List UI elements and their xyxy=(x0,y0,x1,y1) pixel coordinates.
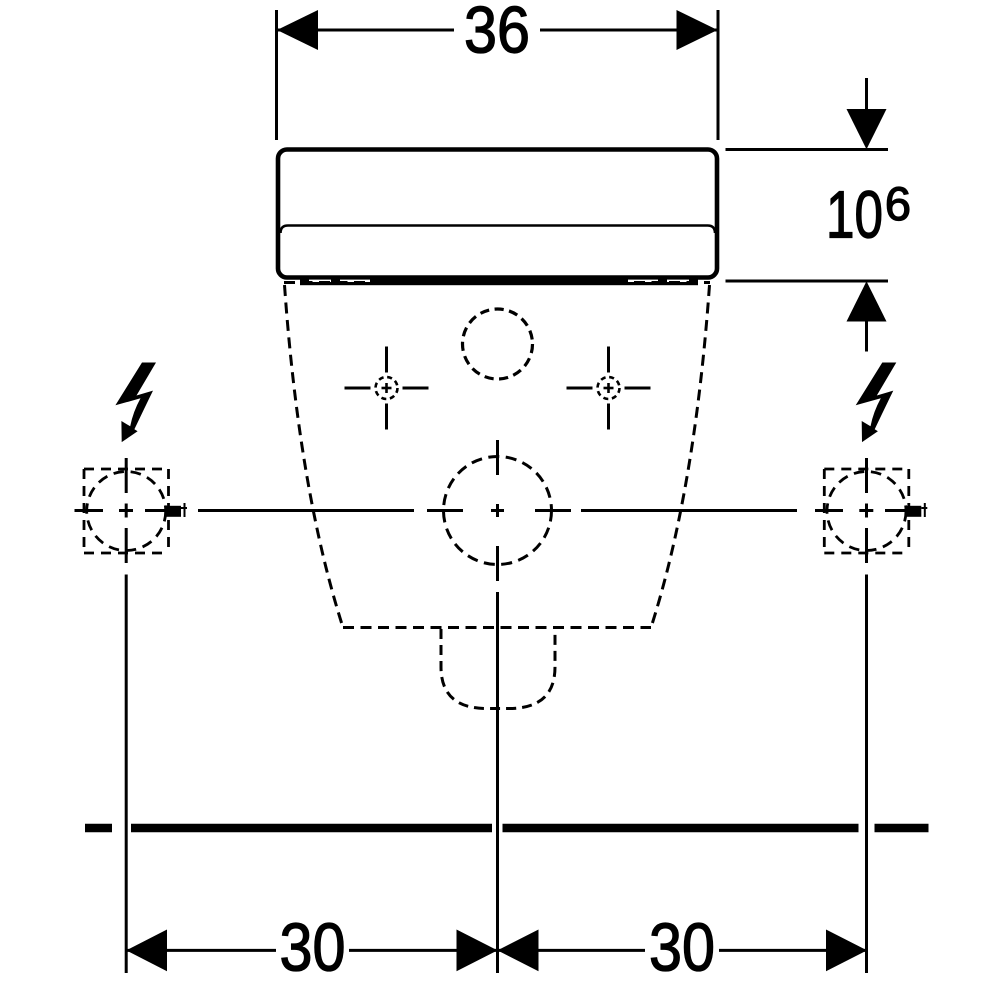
bar white slit 2 xyxy=(340,280,370,282)
svg-text:30: 30 xyxy=(649,911,715,986)
cistern outline (rounded rectangle) xyxy=(278,150,717,278)
svg-text:30: 30 xyxy=(280,911,346,986)
center vertical line xyxy=(496,592,499,973)
right electrical box dashed circle xyxy=(827,472,906,551)
floor line xyxy=(85,824,929,833)
bar white slit 4 xyxy=(667,280,689,282)
WC pan dashed outline: right side xyxy=(651,285,710,628)
left symbol centerline vertical xyxy=(125,458,128,493)
horizontal centerline segments xyxy=(75,509,104,512)
bottom dimension: center bowtie arrowheads xyxy=(457,930,498,972)
right electrical box dashed square xyxy=(824,469,909,553)
bar white slit 1 xyxy=(309,280,331,282)
water supply crosshair horizontal segments xyxy=(427,509,463,512)
water supply dashed circle xyxy=(444,457,552,565)
dimension 36: dimension line right segment xyxy=(540,29,718,32)
svg-text:6: 6 xyxy=(885,177,911,230)
drain outlet dashed U shape xyxy=(441,629,555,709)
right fixing point crosshair xyxy=(567,347,651,430)
bottom dimension: right arrowhead xyxy=(826,930,867,972)
WC pan dashed outline: bottom edge xyxy=(343,626,651,629)
left lightning bolt arrow xyxy=(115,363,156,443)
dimension 10^6: bottom extension line xyxy=(726,280,889,283)
dimension 36: left arrowhead xyxy=(277,10,318,50)
right lightning bolt arrow xyxy=(856,363,897,443)
svg-text:36: 36 xyxy=(464,0,530,67)
svg-text:10: 10 xyxy=(826,178,883,253)
dimension 36: left extension line xyxy=(275,10,278,140)
dimension 10^6: down arrowhead xyxy=(847,109,887,149)
dimension 36: right arrowhead xyxy=(677,10,718,50)
left connector plug xyxy=(166,506,181,517)
WC pan dashed outline: left side xyxy=(285,285,344,628)
dimension 10^6: lower leader line xyxy=(865,322,868,352)
bottom dimension: left arrowhead xyxy=(126,930,167,972)
left electrical box dashed circle xyxy=(87,472,166,551)
upper dashed circle (cistern opening) xyxy=(463,309,533,379)
left electrical box dashed square xyxy=(84,469,169,553)
right symbol centerline vertical xyxy=(865,458,868,493)
dimension 10^6: top extension line xyxy=(726,148,889,151)
left fixing point crosshair xyxy=(345,347,429,430)
water supply crosshair vertical segments xyxy=(496,440,499,475)
dimension 36: right extension line xyxy=(717,10,720,140)
dimension 36: dimension line left segment xyxy=(277,29,454,32)
dimension 10^6: up arrowhead xyxy=(847,281,887,321)
dimension 10^6: upper leader line xyxy=(865,78,868,110)
bottom dimension 30/30: dimension line segments xyxy=(126,949,276,952)
ceramic pan top edge (black bar under cistern) xyxy=(300,279,698,286)
bar white slit 3 xyxy=(628,280,658,282)
cistern flush-plate divider line xyxy=(281,226,716,234)
WC pan dashed outline: top edge xyxy=(284,281,710,284)
right connector plug xyxy=(906,506,921,517)
